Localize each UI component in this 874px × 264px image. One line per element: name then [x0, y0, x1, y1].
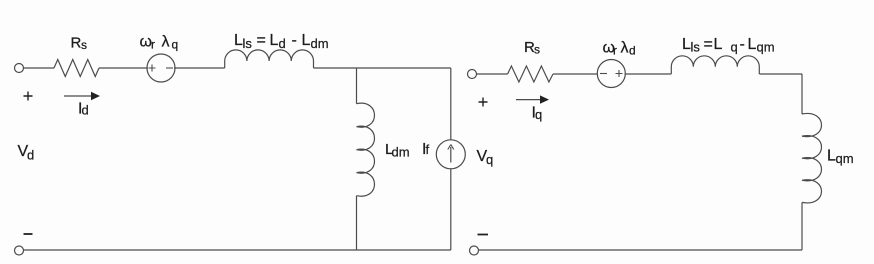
svg-text:d: d [82, 103, 89, 118]
svg-text:q: q [731, 40, 738, 55]
wire Lls to node A and corner [314, 67, 451, 69]
svg-text:ls: ls [691, 40, 701, 55]
wire Rs to source E1 [99, 67, 148, 69]
wire Rs to source E2 [553, 73, 598, 75]
svg-text:d: d [279, 36, 286, 51]
terminal T3 (q-axis top) [468, 70, 477, 79]
svg-text:f: f [426, 142, 430, 157]
current source If [436, 140, 465, 169]
node A vertical wire to Ldm [356, 68, 358, 104]
svg-text:r: r [151, 38, 155, 52]
plus sign (q-axis) [479, 98, 488, 107]
svg-text:=: = [257, 32, 266, 49]
wire Lqm to bottom [801, 203, 803, 251]
svg-text:q: q [172, 38, 179, 52]
inductor Ldm (vertical) [357, 103, 375, 196]
resistor Rs (q-axis) [508, 66, 553, 82]
inductor Lqm (vertical) [802, 113, 822, 202]
terminal T1 (d-axis top) [15, 64, 24, 73]
svg-text:qm: qm [757, 40, 775, 55]
svg-text:s: s [81, 38, 87, 52]
wire T3 to Rs [477, 73, 508, 75]
svg-text:L: L [748, 36, 757, 53]
svg-text:qm: qm [836, 151, 854, 166]
wire E2 to Lls [625, 73, 672, 75]
svg-text:q: q [535, 107, 542, 122]
minus sign (q-axis) [478, 234, 489, 236]
wire If to bottom [450, 168, 452, 250]
plus sign (d-axis) [24, 92, 33, 101]
wire Ldm to bottom [356, 196, 358, 250]
wire corner to source If [450, 68, 452, 140]
inductor Lls = Ld - Ldm [225, 50, 314, 68]
current arrow Iq [516, 99, 540, 101]
svg-text:dm: dm [311, 36, 329, 51]
svg-text:d: d [629, 44, 636, 58]
inductor Lls = Lq - Lqm [671, 56, 759, 74]
current arrow Id [64, 95, 91, 97]
terminal T2 (d-axis bottom) [15, 246, 24, 255]
wire corner down to Lqm [801, 74, 803, 114]
wire E1 to Lls [174, 67, 225, 69]
resistor Rs (d-axis) [54, 60, 99, 77]
svg-text:dm: dm [392, 145, 410, 160]
svg-text:R: R [71, 35, 82, 52]
svg-text:λ: λ [621, 40, 629, 57]
svg-text:λ: λ [162, 34, 170, 51]
terminal T4 (q-axis bottom) [470, 246, 479, 255]
wire Lls to corner [759, 73, 802, 75]
svg-text:L: L [270, 32, 279, 49]
svg-text:L: L [302, 32, 311, 49]
bottom wire (d-axis) [24, 249, 451, 251]
svg-text:L: L [714, 36, 723, 53]
minus sign (d-axis) [24, 233, 33, 235]
svg-text:-: - [740, 36, 745, 53]
wire T1 to Rs [24, 67, 55, 69]
svg-text:s: s [534, 43, 540, 57]
svg-text:=: = [704, 36, 713, 53]
dependent source E1 (wr*lambda_q) [147, 54, 175, 82]
svg-text:r: r [613, 44, 617, 58]
bottom wire (q-axis) [479, 249, 803, 251]
svg-text:q: q [486, 152, 493, 167]
svg-text:ls: ls [243, 36, 253, 51]
svg-text:d: d [27, 148, 34, 163]
svg-text:-: - [292, 32, 297, 49]
dependent source E2 (wr*lambda_d) [597, 60, 625, 88]
